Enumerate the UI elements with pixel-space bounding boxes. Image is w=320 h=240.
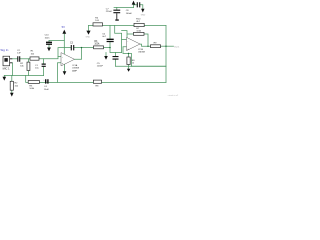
capacitor C7: [113, 10, 120, 13]
ground arrow below R6: [127, 69, 130, 72]
wire input top from J1 pin1 to C2: [12, 58, 17, 60]
wire C1 drop: [43, 59, 45, 76]
wire R1 to op-amp U1 top input: [39, 57, 61, 59]
svg-text:GND: GND: [141, 14, 146, 16]
wire R11 stubs: [11, 76, 13, 93]
wire J1 pin2 drop: [12, 63, 14, 76]
svg-text:circuit.io v2: circuit.io v2: [168, 94, 179, 97]
capacitor C10: [46, 42, 52, 44]
wire C8 to down arrow: [140, 5, 143, 9]
capacitor C2: [18, 56, 20, 62]
svg-text:MIC 1: MIC 1: [3, 67, 10, 71]
svg-text:5V: 5V: [62, 25, 65, 29]
resistor R4: [93, 23, 103, 26]
wire down-jog to y52.5 run: [110, 48, 122, 53]
svg-text:100n: 100n: [45, 37, 51, 39]
wire bottom rail: [26, 76, 166, 83]
wire op-amp U2 output: [140, 44, 151, 46]
wire R7 rail left: [122, 31, 134, 40]
wire supply to C10: [49, 40, 64, 42]
capacitor C1: [42, 64, 46, 66]
resistor R10: [134, 23, 144, 26]
ground arrow below R11: [10, 93, 14, 97]
ground arrow below C10: [47, 48, 51, 52]
svg-text:1uF: 1uF: [17, 53, 21, 55]
wire output node to R3: [82, 47, 94, 49]
wire branch to C8: [134, 4, 138, 6]
svg-text:Out 1: Out 1: [174, 46, 180, 49]
resistor R2: [27, 62, 30, 70]
supply arrow V1: [62, 30, 66, 34]
svg-text:Sig In: Sig In: [0, 48, 8, 52]
net arrow down right of C8: [141, 9, 144, 13]
wire op-amp U1 + input bias leg down to bottom rail: [58, 63, 62, 83]
wire R9 to out label: [161, 45, 174, 47]
wire op-amp U2 + input leg: [123, 47, 132, 67]
svg-text:10uF: 10uF: [44, 89, 50, 91]
wire supply V1 stem: [63, 33, 65, 53]
capacitor C4: [46, 79, 48, 83]
svg-text:100nF: 100nF: [126, 13, 133, 15]
wire R3 to C6 column: [104, 47, 111, 49]
wire R6 bottom stub and gnd link: [116, 65, 167, 69]
wire up-leg to op-amp U2 inverting input: [122, 40, 127, 53]
wire op-amp U1 output up-leg: [75, 48, 82, 60]
svg-text:IC1A: IC1A: [72, 64, 77, 67]
wire R6 top stub: [128, 54, 130, 58]
wire loop top edge: [132, 65, 167, 67]
capacitor C6: [107, 39, 114, 41]
net arrow down at rail2 left end: [86, 31, 90, 35]
resistor R8: [93, 80, 101, 83]
wire C3 to output junction: [74, 47, 81, 49]
ground arrow left rail: [3, 77, 7, 81]
ground arrow mid: [104, 56, 108, 60]
svg-text:-: -: [62, 56, 63, 59]
wire rail2 horizontal: [89, 25, 167, 27]
wire ground stub left: [3, 76, 5, 77]
ground arrow below op-amp U1: [63, 71, 67, 75]
wire rail2 tap down to U2 inverting input: [115, 26, 122, 40]
resistor R7: [134, 32, 145, 35]
wire R7 rail right and down-leg: [144, 34, 148, 46]
wire right vertical of loop: [165, 26, 167, 83]
wire feedback left leg to C3: [58, 48, 71, 57]
svg-text:LM358: LM358: [72, 68, 79, 70]
resistor R5: [28, 81, 39, 84]
wire mid ground stub: [105, 53, 107, 57]
wire C7 stems: [116, 8, 118, 10]
wire C5 stems: [115, 53, 117, 67]
resistor R6: [127, 57, 130, 65]
svg-text:100k: 100k: [94, 44, 100, 46]
ground bar below C7: [115, 19, 119, 20]
wire C10 stems: [48, 41, 50, 48]
capacitor C3: [71, 45, 73, 50]
supply arrow V2: [132, 1, 136, 5]
wire C2 to R1: [20, 58, 30, 60]
wire net arrow stub at rail2 left end: [88, 26, 90, 31]
wire supply V2 stem: [133, 4, 135, 7]
wire C6 stems: [109, 26, 111, 48]
resistor R11: [10, 81, 13, 90]
resistor R9: [151, 45, 161, 48]
capacitor C8: [137, 2, 139, 7]
resistor R1: [30, 57, 39, 60]
svg-text:AMP: AMP: [72, 70, 77, 73]
svg-text:-: -: [127, 40, 128, 43]
svg-text:GND: GND: [86, 36, 91, 38]
svg-text:LM358: LM358: [138, 52, 145, 54]
op-amp U2: [127, 37, 141, 50]
connector J1: [3, 56, 13, 70]
capacitor C5: [113, 57, 119, 60]
svg-text:100nF: 100nF: [97, 66, 104, 68]
node junction dots: [81, 46, 167, 55]
wire R2 stubs: [27, 59, 29, 76]
wire left ground rail: [4, 75, 43, 77]
wire op-amp U1 ground stem: [64, 63, 66, 71]
op-amp U1: [61, 53, 75, 66]
svg-text:220uF: 220uF: [106, 11, 113, 13]
resistor R3: [94, 46, 104, 49]
wire top-left rail to supply arrow: [114, 7, 134, 9]
